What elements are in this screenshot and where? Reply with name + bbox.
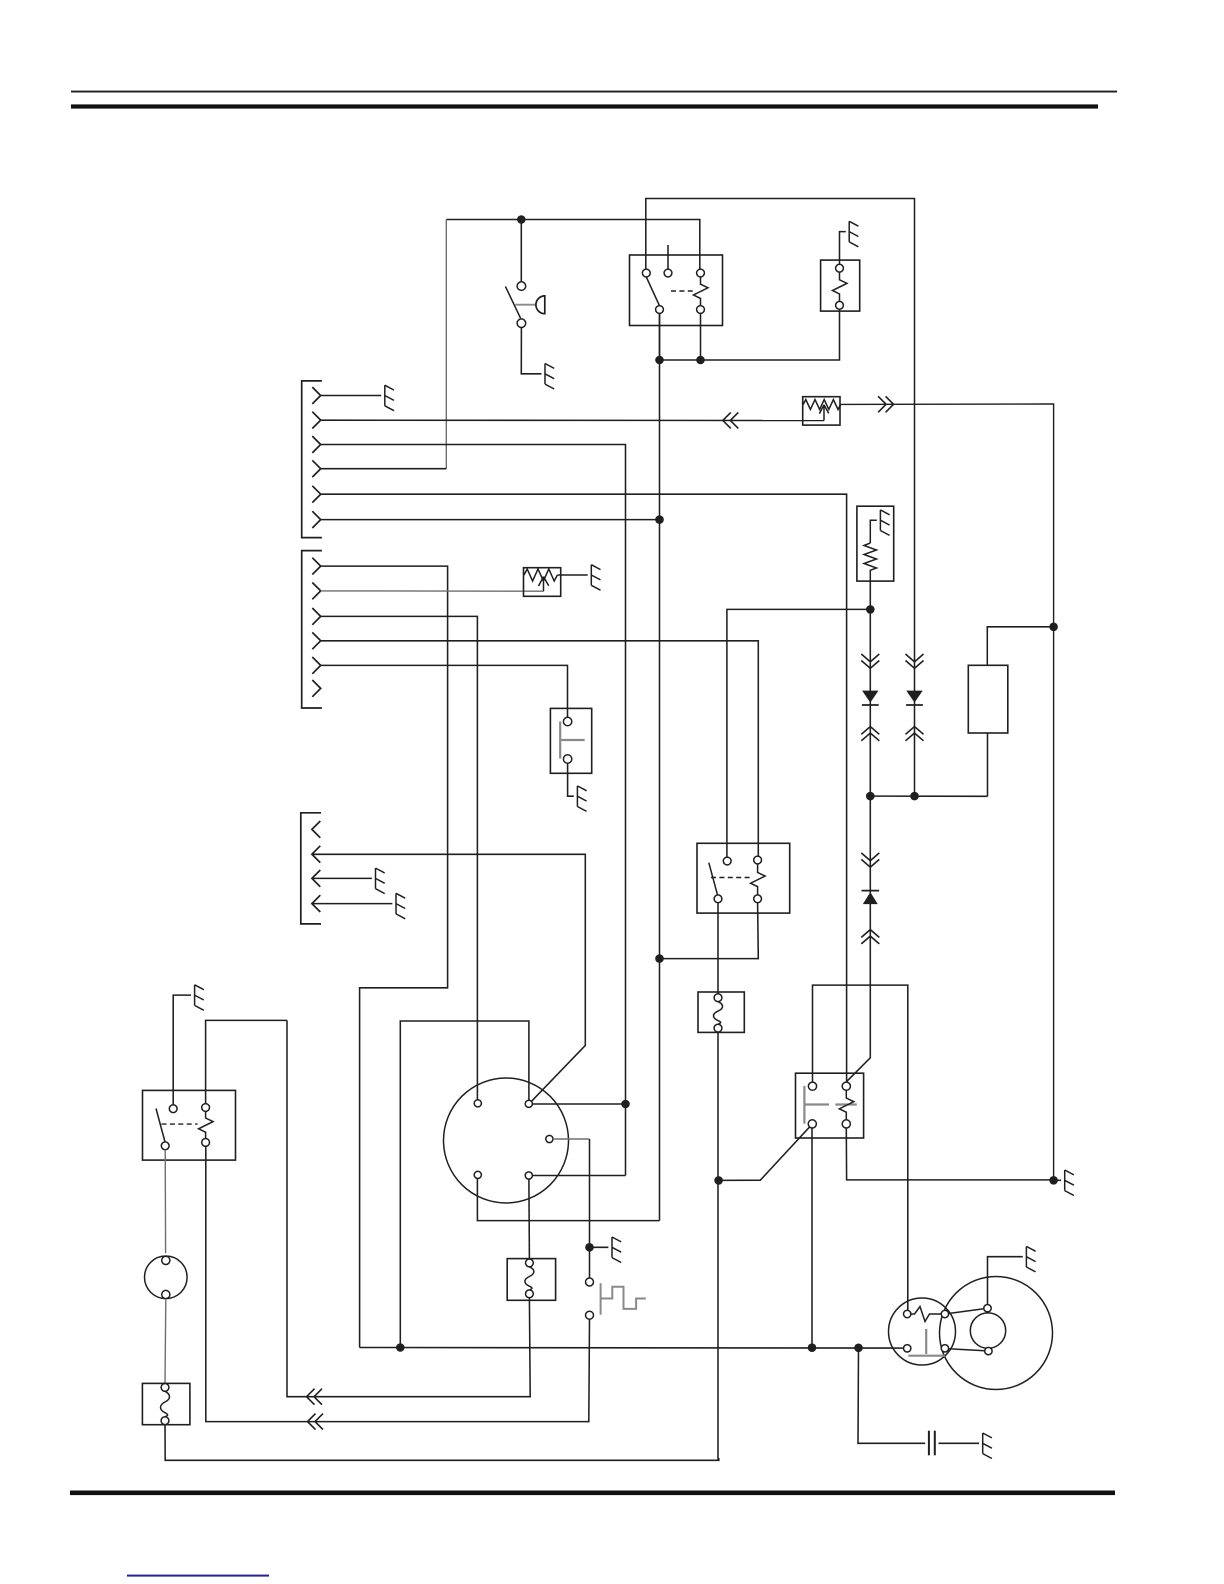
start contact lower [586,1311,594,1319]
wire horn switch to ground [521,328,541,374]
wire key switch S branch [553,1138,590,1140]
wire key switch B jumper [532,1103,625,1105]
wire capacitor branch [858,1348,925,1444]
fuse F2 element [525,1267,534,1290]
connector J3 bracket [301,813,321,924]
node regulator tap [1049,623,1058,632]
connector J2 pin 5 [312,657,320,674]
PTO switch S3 box [796,1073,864,1138]
connector J1 pin 6 [312,511,320,528]
relay K1 coil [694,277,709,305]
capacitor C1 [929,1431,935,1456]
wire fuse F2 to interlock arrow line [287,1020,530,1396]
wire module output to diode D1 column [869,581,871,796]
connector J2 pin 2 [312,583,320,600]
fuse F1 terminals [714,994,722,1002]
starter link upper [949,1309,984,1314]
wire J1-6 to main vertical bus [321,519,660,521]
node diode D1 junction [866,792,875,801]
wire J1-4 stub [321,468,447,470]
throttle potentiometer R1 box [803,397,840,425]
connector inline arrow harness B [878,396,894,412]
wire J2-2 to fuel sender wiper [321,590,544,592]
wire fuel sender to ground [558,574,588,576]
fuse F2 box [507,1259,555,1301]
wire key switch B to accessory feed [400,1021,529,1348]
fuel sender R2 wiper arrow [539,577,549,592]
node J1-6 junction [655,515,664,524]
wire regulator top lead [987,627,1053,666]
wire J3-4 to ground [312,903,393,905]
footer link underline [127,1575,269,1577]
brake relay K3 coil [199,1111,214,1138]
horn sounder [536,296,545,314]
circuit breaker CB1 element [833,272,848,301]
node PTO ground junction [1049,1176,1058,1185]
connector arrows diode D3 top [861,853,879,867]
ground J3-3 [376,868,385,894]
diode D3 [862,890,880,892]
fuel sender R2 box [524,568,561,597]
page footer thick rule [70,1491,1115,1496]
wire J2-3 to key switch top-left terminal [321,616,478,1099]
node horn feed junction [517,215,526,224]
node accessory branch junction [714,1176,723,1185]
starter relay K2 terminals bottom [714,895,722,903]
connector J1 pin 2 [312,412,320,429]
wire connector J1 pin4 riser [445,220,447,469]
wire PTO clutch drop [811,1128,813,1348]
diode D2 [906,691,922,703]
wire J1-2 to throttle potentiometer [321,419,824,421]
wire feed to starter relay coil [727,609,870,857]
starter terminals [904,1310,911,1317]
start contact upper [589,1247,591,1278]
relay K1 box [630,255,723,326]
ground PTO rail [1065,1170,1074,1196]
PTO switch terminals top [808,1082,816,1090]
key switch terminal B [525,1100,532,1107]
starter link lower [949,1349,985,1351]
ground brake relay [195,985,204,1011]
connector arrows diode D1 top [861,654,879,668]
fuse F3 terminals [161,1384,169,1392]
wire seat switch to ground [568,763,574,796]
diode D1 [862,691,878,703]
wire ground spur [1054,1179,1062,1181]
wire J1-5 to PTO switch feed [321,494,847,1082]
brake relay K3 dashed link [162,1123,198,1125]
node relay 86 junction [696,356,705,365]
ignition module internal ground [880,510,889,536]
starter relay K2 coil [751,864,766,895]
wire capacitor to ground [939,1442,980,1444]
relay K1 terminal 30 [642,269,650,277]
node start ground spur [585,1243,594,1252]
connector J2 pin 3 [312,608,320,625]
wire K3 to hour meter [164,1150,166,1254]
ground J3-4 [396,893,405,919]
seat switch S2 terminals [563,717,571,725]
PTO switch terminals bottom [808,1120,816,1128]
wire alternator rail to diode D2 column [914,404,916,796]
wire main vertical bus [659,313,661,1220]
fuse F3 box [142,1383,190,1424]
wire K3 to ground [173,995,191,1105]
connector arrows diode D3 bottom [861,930,879,944]
node relay 85 junction [655,356,664,365]
wire battery feed bus [360,1347,904,1350]
ground start circuit [612,1237,621,1263]
circuit breaker CB1 box [821,260,860,311]
brake relay K3 armature [156,1109,165,1142]
wire accessory branch to PTO switch [719,1126,811,1180]
PTO switch contact element [839,1090,854,1120]
ground horn [545,364,554,390]
connector inline arrow interlock B [308,1414,324,1430]
starter armature circle [970,1313,1005,1348]
wire fuse F3 return to accessory bus [165,1425,719,1461]
wire diode D3 column to PTO switch [847,796,871,1082]
connector J3 pin 4 [312,895,320,912]
ignition module internal resistor [864,520,877,581]
wire key switch ground-side link [477,1179,659,1221]
ground seat switch [577,786,586,812]
connector arrows diode D2 top [906,654,924,668]
wire starter case ground [988,1257,1023,1305]
wire key switch A2 to fuse F2 [528,1179,531,1259]
node key switch B junction [621,1100,630,1109]
regulator B1 box [968,665,1008,733]
wire J2-1 to brake relay branch [321,566,448,1347]
ground breaker [849,221,858,246]
wire regulator bottom lead [987,733,989,796]
key switch terminal S [546,1135,553,1142]
wire top power rail [646,199,915,405]
wire diode junction bus [870,795,987,797]
ground starter [1026,1246,1035,1272]
connector J2 bracket [302,551,322,708]
throttle potentiometer R1 element [803,400,840,410]
node capacitor junction [854,1344,863,1353]
key switch S1 body [444,1078,569,1203]
circuit breaker CB1 terminals [836,264,844,272]
relay K1 terminal 87 [697,269,705,277]
relay K1 terminal 87a stub [667,245,669,269]
connector J2 pin 1 [312,558,320,575]
connector J2 pin 4 [312,632,320,649]
throttle potentiometer R1 wiper [819,405,828,421]
connector J1 pin 1 [312,387,320,404]
relay K1 dashed link [671,290,696,292]
connector J1 bracket [302,381,322,538]
connector arrows diode D2 bottom [906,727,924,741]
fuse F1 box [698,992,744,1032]
wire breaker to ground [840,232,846,265]
starter relay K2 armature [709,863,718,896]
wire start contact to interlock arrow line [206,1146,590,1421]
node PTO clutch junction [808,1343,817,1352]
page header thick rule [71,104,1098,108]
connector J3 pin 3 [312,870,320,887]
relay K1 armature [646,277,659,305]
wire starter relay to fuse F1 [717,903,719,994]
node K2 return junction [655,954,664,963]
wire key switch A2 jumper [532,1175,625,1177]
node diode D2 junction [910,792,919,801]
connector arrows diode D1 bottom [861,727,879,741]
connector J1 pin 5 [312,486,320,503]
brake relay K3 terminals bottom [161,1142,169,1150]
connector J2 pin 6 [312,680,320,697]
starter solenoid body [889,1298,956,1365]
wire hour meter to fuse F3 [164,1300,167,1384]
fuse F3 element [161,1391,170,1416]
wire J3-3 to ground [312,877,372,879]
connector inline arrow harness A [723,412,739,428]
horn button switch SW1 [520,220,522,282]
fuse F1 element [714,1002,723,1025]
node accessory feed junction [396,1343,405,1352]
wire pot to regulator drop [840,404,1054,1180]
connector J3 pin 2 [312,846,320,863]
starter relay K2 terminals top [723,857,731,865]
brake relay K3 box [143,1090,236,1160]
node module output junction [866,605,875,614]
horn actuator link [515,304,536,306]
ground fuel sender [591,565,600,591]
ground J1-1 [385,385,394,410]
starter solenoid plunger [908,1329,945,1356]
ignition module M1 box [857,506,894,581]
fuse F2 terminals [526,1259,534,1267]
hour meter lamp L1 [145,1256,188,1299]
starter relay K2 dashed link [711,877,751,879]
wire horn feed rail [446,220,700,270]
wire J3-2 to key switch start terminal [312,854,585,1101]
fuel sender R2 element [524,569,557,581]
wire fuse F1 to accessory bus [717,1032,719,1460]
wire J2-4 to starter relay terminal [321,641,759,856]
wire start ground spur [590,1246,609,1248]
wire relay K1 coil returns to breaker [659,313,661,360]
wire J1-3 to key switch B terminal [321,445,626,1101]
key switch terminal M [474,1100,481,1107]
start switch actuator waveform [601,1283,646,1314]
relay K1 terminal 85 [656,306,664,314]
brake relay K3 terminals top [169,1105,177,1113]
wire PTO switch to solenoid feed [813,985,908,1310]
seat switch S2 plunger [560,721,585,758]
starter motor body [940,1277,1053,1390]
connector J1 pin 3 [312,436,320,453]
relay K1 terminal 86 [697,306,705,314]
wire J2-5 to seat switch [321,665,568,717]
connector J1 pin 4 [312,460,320,477]
page header thin rule [71,91,1117,93]
wire J1-1 to ground [321,395,382,397]
key switch terminal A1 [474,1171,481,1178]
connector inline arrow interlock A [307,1389,323,1405]
starter solenoid contact element [911,1307,941,1322]
PTO switch plunger [804,1086,856,1124]
wire K3 coil feed [206,1020,287,1103]
seat switch S2 box [550,708,591,773]
ground capacitor [983,1433,992,1459]
wire PTO clutch return to ground rail [846,1128,1050,1180]
wire K2 coil return to main bus [660,903,759,959]
connector J3 pin 1 [312,821,320,838]
key switch terminal A2 [525,1172,532,1179]
starter relay K2 box [697,843,790,913]
